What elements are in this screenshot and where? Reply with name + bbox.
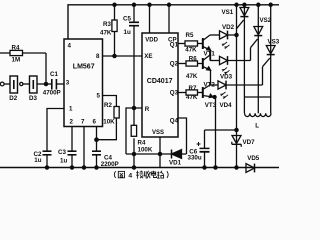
diode VD1 bbox=[171, 150, 173, 159]
wire VT1 emitter down bbox=[210, 50, 212, 60]
transistor VT3 bbox=[202, 87, 204, 98]
svg-text:7: 7 bbox=[81, 119, 85, 126]
op-amp U1 LM567 box bbox=[64, 39, 103, 127]
diode VD2 bbox=[220, 31, 228, 39]
wire pin 7 to ground bbox=[83, 127, 85, 168]
svg-text:XE: XE bbox=[144, 53, 152, 60]
svg-text:3: 3 bbox=[66, 79, 70, 86]
svg-text:VD2: VD2 bbox=[222, 24, 235, 31]
svg-text:VDD: VDD bbox=[145, 38, 158, 44]
wire VT2 emitter down bbox=[210, 70, 212, 85]
resistor R4 1M bbox=[0, 52, 10, 54]
svg-text:VD7: VD7 bbox=[243, 139, 256, 146]
svg-text:R7: R7 bbox=[189, 85, 197, 92]
resistor R2 10K bbox=[103, 96, 117, 107]
svg-text:2200P: 2200P bbox=[101, 161, 119, 168]
svg-text:47K: 47K bbox=[186, 73, 198, 80]
svg-text:Q2: Q2 bbox=[170, 61, 179, 68]
resistor R7 47K bbox=[186, 90, 198, 95]
wire pin 8 to CD4017 bbox=[103, 55, 143, 57]
svg-text:L: L bbox=[255, 122, 259, 129]
wire Q2 row bbox=[178, 63, 186, 65]
svg-text:1u: 1u bbox=[124, 29, 131, 36]
wire VT1 collector row bbox=[210, 34, 220, 36]
svg-text:VD1: VD1 bbox=[169, 159, 182, 166]
node R pin junction bbox=[132, 106, 135, 109]
wire reset row bbox=[126, 153, 172, 155]
svg-text:1: 1 bbox=[69, 105, 73, 112]
wire node to D3 bbox=[23, 83, 30, 85]
wire R pin to reset line bbox=[126, 108, 142, 154]
capacitor C3 1u bbox=[68, 150, 77, 152]
wire pin 6 down bbox=[96, 127, 98, 152]
wire Q3 row bbox=[178, 92, 186, 94]
svg-text:VS1: VS1 bbox=[222, 9, 234, 16]
svg-text:R4: R4 bbox=[12, 45, 20, 52]
capacitor C4 2200P bbox=[92, 150, 101, 152]
wire bottom ground rail bbox=[0, 167, 279, 169]
diode VD3 bbox=[220, 56, 228, 64]
svg-text:47K: 47K bbox=[100, 30, 112, 37]
caption 图4 接收电路 drawn as vector glyphs bbox=[114, 171, 124, 178]
wire Q1 row bbox=[178, 43, 185, 45]
node pin6/R2 junction bbox=[95, 138, 98, 141]
wire C1 to pin 3 bbox=[56, 83, 64, 85]
node A junction bbox=[44, 82, 47, 85]
capacitor C6 330u electrolytic bbox=[204, 130, 206, 148]
resistor R6 47K bbox=[186, 61, 198, 66]
node between D2 and D3 bbox=[20, 82, 23, 85]
svg-text:4700P: 4700P bbox=[43, 90, 61, 97]
resistor R5 47K bbox=[185, 41, 198, 46]
wire D3 to node A bbox=[37, 83, 52, 85]
wire pin 1 to C2 bbox=[47, 109, 64, 152]
wire VDD feed bbox=[149, 5, 151, 33]
svg-text:C5: C5 bbox=[123, 16, 131, 23]
svg-text:R5: R5 bbox=[186, 32, 194, 39]
wire pin 2 down bbox=[71, 127, 73, 152]
svg-text:C3: C3 bbox=[58, 149, 66, 156]
svg-text:8: 8 bbox=[96, 53, 100, 60]
svg-text:VD4: VD4 bbox=[220, 102, 233, 109]
wire input to D2 bbox=[4, 83, 10, 85]
thyristor VS2 bbox=[257, 5, 259, 114]
wire VT2 collector row bbox=[209, 55, 211, 61]
inductor L loops bbox=[245, 113, 271, 116]
diode VD7 zener bbox=[236, 130, 238, 168]
svg-text:2: 2 bbox=[70, 119, 74, 126]
svg-text:10K: 10K bbox=[103, 118, 115, 125]
arrows VD3 bbox=[222, 68, 230, 75]
wire VD1 up to Q4 bbox=[178, 118, 187, 154]
diode D3 bbox=[30, 76, 38, 93]
svg-text:D2: D2 bbox=[9, 95, 17, 102]
svg-text:R: R bbox=[145, 106, 150, 113]
svg-text:47K: 47K bbox=[186, 94, 198, 101]
wire top supply rail bbox=[68, 5, 279, 39]
svg-text:VD3: VD3 bbox=[220, 74, 233, 81]
resistor R3 47K bbox=[114, 5, 116, 20]
svg-text:4: 4 bbox=[128, 172, 132, 179]
svg-text:5: 5 bbox=[97, 93, 101, 100]
capacitor C2 1u bbox=[43, 150, 52, 152]
svg-text:1u: 1u bbox=[60, 158, 67, 165]
thyristor VS1 bbox=[243, 5, 245, 114]
svg-text:VSS: VSS bbox=[152, 130, 164, 136]
wire R4 down to node A bbox=[45, 53, 47, 84]
wire VSS to ground bbox=[159, 137, 161, 168]
svg-text:330u: 330u bbox=[188, 155, 202, 162]
svg-text:6: 6 bbox=[93, 119, 97, 126]
capacitor C5 1u bbox=[133, 5, 135, 23]
svg-text:47K: 47K bbox=[185, 47, 197, 54]
terminal input bbox=[0, 82, 4, 86]
svg-text:4: 4 bbox=[68, 43, 72, 50]
svg-text:LM567: LM567 bbox=[73, 64, 95, 71]
wire CP feed bbox=[168, 5, 170, 33]
svg-text:CD4017: CD4017 bbox=[147, 78, 173, 85]
diode D2 bbox=[10, 76, 18, 93]
wire gate column VS1 bbox=[236, 5, 238, 130]
wire C6 top row bbox=[205, 129, 237, 131]
IC U2 CD4017 box bbox=[142, 33, 178, 137]
diode VD4 bbox=[218, 81, 226, 89]
transistor VT2 bbox=[202, 58, 204, 69]
svg-text:R4: R4 bbox=[138, 140, 146, 147]
svg-text:1u: 1u bbox=[34, 157, 41, 164]
svg-text:1M: 1M bbox=[12, 56, 21, 63]
svg-text:R2: R2 bbox=[104, 102, 112, 109]
svg-text:Q1: Q1 bbox=[170, 42, 179, 49]
svg-text:R3: R3 bbox=[103, 21, 111, 28]
svg-text:Q4: Q4 bbox=[170, 117, 179, 124]
svg-text:D3: D3 bbox=[29, 95, 37, 102]
svg-text:VS2: VS2 bbox=[260, 17, 272, 24]
wire C5 down to R pin node bbox=[133, 26, 135, 126]
svg-text:R6: R6 bbox=[189, 55, 197, 62]
svg-text:VD5: VD5 bbox=[247, 155, 260, 162]
arrows VD2 bbox=[222, 42, 230, 49]
wire VT3 emitter to ground bbox=[213, 97, 216, 168]
arrows VD4 bbox=[220, 92, 228, 99]
diode VD5 bbox=[246, 164, 255, 173]
wire VT3 collector row bbox=[210, 84, 218, 86]
resistor R4 100K bbox=[131, 125, 136, 136]
svg-text:100K: 100K bbox=[138, 147, 153, 154]
transistor VT1 bbox=[202, 38, 204, 49]
inductor L coil bus bbox=[244, 96, 270, 98]
capacitor C1 4700P bbox=[51, 79, 53, 90]
svg-text:VS3: VS3 bbox=[268, 38, 280, 45]
svg-text:C1: C1 bbox=[50, 71, 58, 78]
svg-text:Q3: Q3 bbox=[170, 89, 179, 96]
thyristor VS3 bbox=[270, 5, 272, 114]
